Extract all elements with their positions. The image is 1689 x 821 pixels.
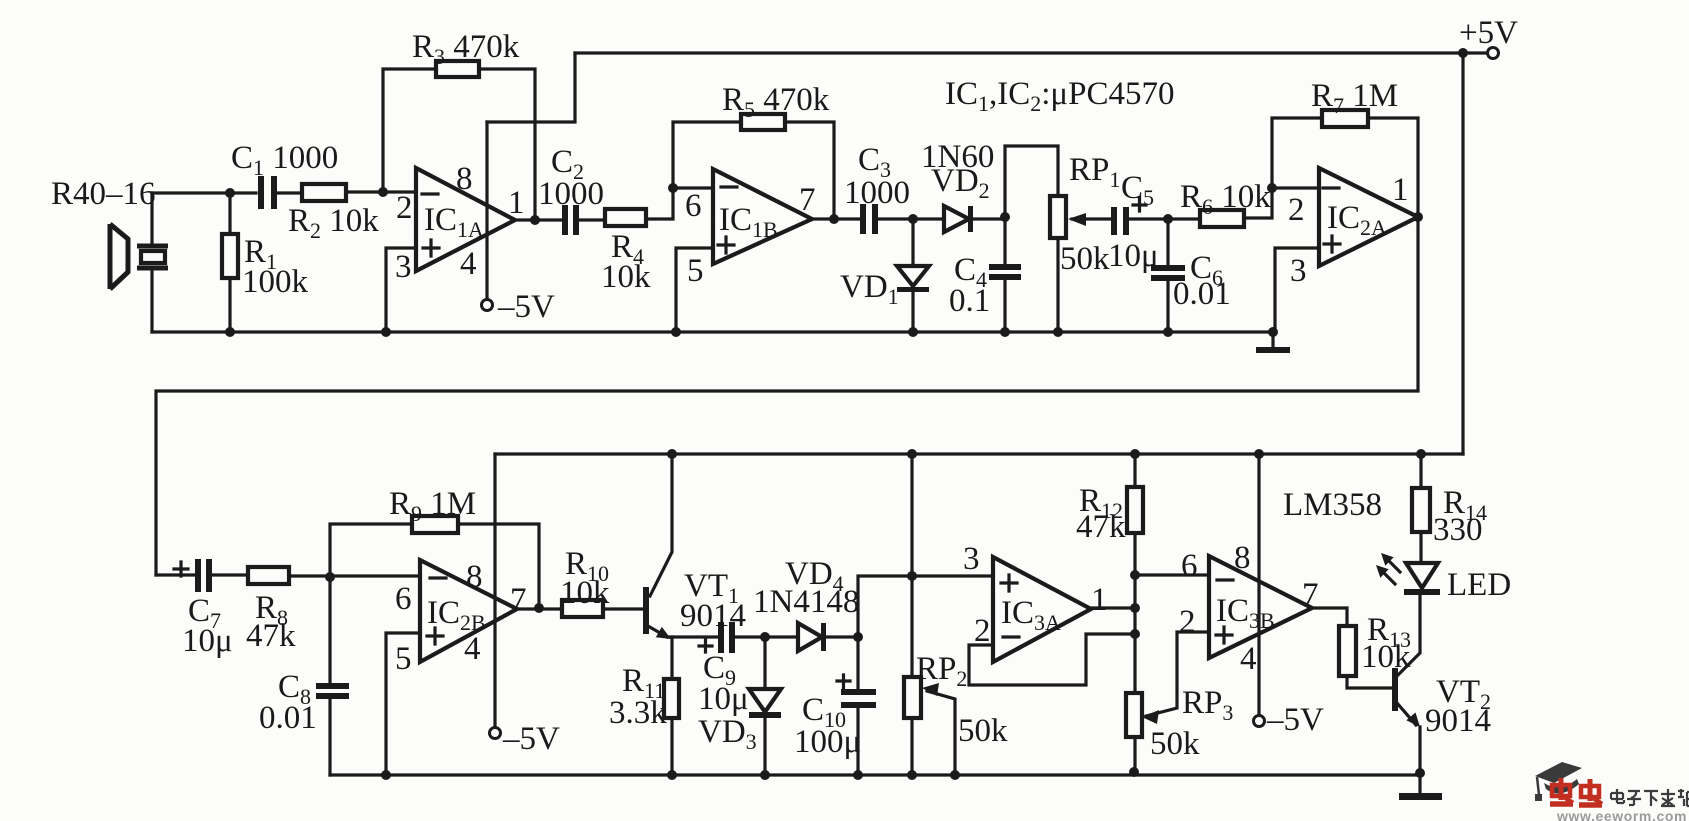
- wire RP3 wiper to IC3B pin2: [1146, 632, 1209, 716]
- capacitor C2: [562, 205, 568, 235]
- svg-text:R3 470k: R3 470k: [412, 29, 520, 69]
- node junction IC2A output R7: [1413, 212, 1423, 222]
- svg-text:0.01: 0.01: [1173, 276, 1231, 312]
- node junction IC1B output R5: [829, 214, 839, 224]
- node lower +V rail: [495, 452, 1463, 455]
- microphone R40-16 crystal element: [137, 246, 168, 268]
- wire C8 branch: [328, 577, 331, 775]
- wire C7 row to IC2B pin6: [156, 575, 420, 576]
- svg-text:www.eeworm.com: www.eeworm.com: [1556, 808, 1687, 821]
- wire R3 feedback loop: [383, 69, 535, 220]
- node junction IC1A output R3: [530, 215, 540, 225]
- wire RP2 vertical from rail: [910, 454, 913, 775]
- wire R1 branch: [228, 193, 231, 332]
- node junction RP2 IC3A pin3: [907, 571, 917, 581]
- node junction rail IC1B pin5: [671, 327, 681, 337]
- op-amp IC1A: [416, 168, 515, 271]
- node junction lower rail IC2B pin5: [381, 770, 391, 780]
- capacitor C10: [841, 689, 876, 695]
- wire IC3B output to R13: [1312, 608, 1347, 626]
- wire input row R40-16 to IC1A pin2: [152, 192, 416, 193]
- ground upper: [1271, 332, 1274, 347]
- wire R12 RP3 vertical: [1133, 454, 1136, 772]
- node -5V terminal IC2B: [490, 728, 501, 739]
- svg-text:50k: 50k: [1060, 241, 1110, 277]
- node junction rail VD1: [908, 327, 918, 337]
- svg-text:RP2: RP2: [916, 651, 967, 691]
- node junction rail RP1: [1053, 327, 1063, 337]
- wire C10 node up to IC3A pin3: [858, 576, 993, 637]
- wire C6 branch: [1166, 219, 1169, 332]
- svg-text:–5V: –5V: [497, 289, 555, 325]
- wire lower ground rail: [330, 773, 1420, 776]
- potentiometer RP2: [904, 677, 921, 718]
- op-amp IC2A: [1319, 168, 1418, 266]
- wire R5 feedback loop: [673, 122, 834, 219]
- svg-text:9014: 9014: [1425, 703, 1491, 739]
- resistor R6: [1200, 210, 1244, 227]
- diode VD1: [897, 266, 929, 286]
- microphone R40-16 horn: [110, 224, 128, 289]
- svg-text:10μ: 10μ: [698, 681, 749, 717]
- svg-text:VD1: VD1: [840, 269, 899, 309]
- wire VT2 collector to LED: [1397, 595, 1420, 676]
- svg-text:3: 3: [1290, 253, 1307, 289]
- capacitor C7: [195, 559, 201, 592]
- svg-text:IC1,IC2:μPC4570: IC1,IC2:μPC4570: [945, 76, 1174, 116]
- node junction lower rail RP3: [1129, 767, 1139, 777]
- wire IC1B pin5 to rail: [676, 248, 713, 332]
- op-amp IC3B: [1209, 556, 1312, 658]
- wire mic left branch: [150, 193, 153, 332]
- svg-text:4: 4: [1240, 641, 1257, 677]
- resistor R4: [605, 209, 646, 226]
- svg-text:7: 7: [799, 182, 816, 218]
- svg-text:–5V: –5V: [502, 721, 560, 757]
- svg-text:6: 6: [685, 188, 702, 224]
- wire IC2B supply line pin8-pin4: [493, 454, 496, 728]
- svg-text:8: 8: [466, 559, 483, 595]
- node junction IC2A pin2 R7: [1267, 183, 1277, 193]
- node junction C5 C6 R6: [1163, 214, 1173, 224]
- resistor R7: [1322, 110, 1368, 127]
- svg-text:2: 2: [974, 613, 991, 649]
- wire IC2A output long connector down-left to C7: [156, 217, 1418, 575]
- capacitor C8: [316, 683, 349, 689]
- svg-text:100μ: 100μ: [794, 724, 861, 760]
- wire +5V drop to IC1A pin8: [487, 53, 575, 122]
- wire VD1 branch: [911, 219, 914, 332]
- svg-text:4: 4: [464, 631, 481, 667]
- svg-text:VD3: VD3: [698, 714, 757, 754]
- node junction lower rail C10: [853, 770, 863, 780]
- svg-text:3: 3: [395, 249, 412, 285]
- node junction lower rail VT2 emitter: [1415, 768, 1425, 778]
- svg-text:2: 2: [1179, 604, 1196, 640]
- capacitor C6: [1151, 265, 1185, 271]
- resistor R2: [302, 184, 346, 201]
- watermark text dianzi xiazaizhan: [1611, 789, 1689, 806]
- node junction C1-R1 input: [225, 188, 235, 198]
- svg-text:8: 8: [456, 161, 473, 197]
- node junction VD1 VD2 anode: [908, 214, 918, 224]
- svg-text:IC2B: IC2B: [427, 595, 486, 635]
- svg-text:1: 1: [1091, 582, 1108, 618]
- wire R9 feedback loop: [330, 524, 539, 608]
- svg-text:5: 5: [687, 253, 704, 289]
- svg-text:+5V: +5V: [1459, 15, 1518, 51]
- transistor VT2: [1392, 668, 1398, 711]
- wire C10 branch: [856, 637, 859, 775]
- svg-text:R2 10k: R2 10k: [288, 203, 379, 243]
- svg-text:2: 2: [1288, 192, 1305, 228]
- node junction +5V rail drop: [1458, 48, 1468, 58]
- svg-text:IC1B: IC1B: [719, 202, 778, 242]
- wire R11 branch: [670, 637, 673, 775]
- node junction lower rail RP2 wiper: [950, 770, 960, 780]
- node junction VD4 C10 IC3A pin3: [853, 632, 863, 642]
- svg-text:6: 6: [1181, 548, 1198, 584]
- node junction rail RP2: [907, 449, 917, 459]
- wire VD4 cathode to C10 node: [826, 635, 858, 638]
- node junction R8 R9 C8 IC2B pin6: [325, 572, 335, 582]
- wire IC2B pin5 to rail: [386, 633, 420, 775]
- svg-text:50k: 50k: [958, 713, 1008, 749]
- svg-text:3: 3: [963, 541, 980, 577]
- wire node to RP1 top: [1005, 146, 1058, 217]
- wire RP2 wiper to rail: [927, 691, 955, 775]
- svg-text:9014: 9014: [680, 598, 746, 634]
- node junction lower rail VD3: [760, 770, 770, 780]
- svg-text:LM358: LM358: [1283, 487, 1382, 523]
- resistor R1: [222, 234, 238, 278]
- svg-text:IC2A: IC2A: [1327, 200, 1387, 240]
- svg-text:1: 1: [1392, 172, 1409, 208]
- svg-text:10k: 10k: [560, 575, 610, 611]
- diode VD3: [749, 689, 781, 712]
- resistor R5: [741, 114, 785, 130]
- resistor R10: [562, 600, 603, 617]
- potentiometer RP1: [1050, 196, 1066, 238]
- svg-text:C1 1000: C1 1000: [231, 140, 338, 180]
- svg-text:IC3B: IC3B: [1216, 593, 1275, 633]
- svg-text:IC1A: IC1A: [424, 202, 484, 242]
- node junction lower rail R11: [667, 770, 677, 780]
- svg-text:R5 470k: R5 470k: [722, 82, 830, 122]
- svg-text:0.1: 0.1: [949, 283, 990, 319]
- resistor R9: [412, 516, 458, 533]
- wire R14 branch: [1419, 454, 1422, 563]
- node junction VD2 cathode C4 RP1: [1000, 212, 1010, 222]
- node -5V terminal IC1A: [482, 300, 493, 311]
- wire VT1 collector to rail: [650, 454, 672, 596]
- svg-text:7: 7: [510, 582, 527, 618]
- capacitor C9: [718, 622, 724, 653]
- wire C4 branch: [1003, 217, 1006, 332]
- node junction rail IC3B pin8: [1254, 449, 1264, 459]
- wire VD3 branch: [763, 637, 766, 775]
- capacitor C5: [1111, 207, 1117, 235]
- diode VD2: [944, 206, 969, 232]
- resistor R3: [436, 61, 479, 77]
- svg-text:R6 10k: R6 10k: [1180, 179, 1271, 219]
- node +5V rail: [575, 51, 1490, 54]
- wire IC1A supply line pin8-pin4: [485, 122, 488, 300]
- transistor VT1: [643, 587, 649, 634]
- node junction C9 VD3 VD4: [760, 632, 770, 642]
- svg-text:1000: 1000: [538, 176, 604, 212]
- node junction rail IC1A pin3: [381, 327, 391, 337]
- watermark logo graduation cap: [1535, 762, 1582, 783]
- node junction R12 IC3B pin6: [1130, 570, 1140, 580]
- svg-text:47k: 47k: [1076, 509, 1126, 545]
- svg-text:–5V: –5V: [1266, 702, 1324, 738]
- resistor R13: [1339, 626, 1356, 676]
- node junction IC3A feedback: [1130, 629, 1140, 639]
- wire IC1A output to C2: [515, 218, 605, 221]
- node junction rail ground point: [1268, 327, 1278, 337]
- svg-text:50k: 50k: [1150, 726, 1200, 762]
- wire R10 to VT1 base: [603, 607, 644, 610]
- resistor R11: [664, 679, 679, 718]
- capacitor C1: [258, 176, 264, 209]
- node junction rail C4: [1000, 327, 1010, 337]
- svg-text:2: 2: [396, 190, 413, 226]
- wire IC2B output to R10: [517, 607, 562, 610]
- capacitor C4: [989, 264, 1021, 270]
- node junction rail R12: [1130, 449, 1140, 459]
- svg-text:1: 1: [508, 185, 525, 221]
- node +5V terminal: [1488, 48, 1499, 59]
- svg-text:330: 330: [1433, 512, 1483, 548]
- svg-text:C5: C5: [1121, 170, 1154, 210]
- wire IC2A pin3 to ground: [1275, 248, 1319, 332]
- op-amp IC2B: [420, 560, 517, 662]
- svg-text:10μ: 10μ: [1108, 238, 1159, 274]
- wire VD2 cathode to node: [972, 217, 1005, 220]
- LED: [1406, 563, 1438, 588]
- capacitor C3: [860, 204, 866, 234]
- resistor R8: [248, 567, 289, 584]
- wire VT1 emitter node to C9: [668, 635, 719, 638]
- diode VD4: [798, 623, 822, 651]
- node junction rail C6: [1163, 327, 1173, 337]
- svg-text:R40–16: R40–16: [51, 176, 156, 212]
- node junction IC1A pin2 R3: [378, 187, 388, 197]
- node junction IC1B pin6 R5: [668, 183, 678, 193]
- node junction IC2B output R9: [534, 603, 544, 613]
- op-amp IC3A: [993, 557, 1091, 662]
- svg-text:0.01: 0.01: [259, 700, 317, 736]
- wire R4 to IC1B pin6: [646, 188, 713, 219]
- node junction rail R1: [225, 327, 235, 337]
- wire R6 to IC2A pin2: [1244, 188, 1319, 218]
- svg-text:7: 7: [1302, 577, 1319, 613]
- svg-text:LED: LED: [1447, 567, 1511, 603]
- wire RP1 bottom to rail: [1056, 238, 1059, 332]
- watermark logo insect char 2: [1579, 779, 1602, 805]
- resistor R12: [1127, 487, 1143, 533]
- wire C5 to R6: [1129, 217, 1200, 220]
- watermark logo insect char 1: [1550, 778, 1573, 804]
- wire upper ground rail: [152, 330, 1273, 333]
- svg-text:R7 1M: R7 1M: [1311, 78, 1398, 118]
- svg-text:100k: 100k: [242, 264, 309, 300]
- svg-text:1000: 1000: [844, 175, 910, 211]
- node junction rail VT1 collector: [667, 449, 677, 459]
- wire IC1B output to C3: [812, 217, 944, 220]
- ground lower right: [1418, 773, 1421, 793]
- svg-text:47k: 47k: [246, 618, 296, 654]
- wire IC3A output: [1091, 606, 1134, 609]
- svg-text:4: 4: [460, 246, 477, 282]
- wire C9 to VD4: [734, 635, 798, 638]
- svg-text:3.3k: 3.3k: [609, 695, 667, 731]
- wire IC3A pin2 feedback loop: [969, 634, 1134, 685]
- wire RP1 wiper to C5: [1072, 217, 1112, 220]
- svg-text:RP3: RP3: [1182, 685, 1233, 725]
- svg-text:RP1: RP1: [1069, 152, 1120, 192]
- op-amp IC1B: [713, 169, 812, 264]
- resistor R14: [1412, 488, 1430, 532]
- svg-text:5: 5: [395, 641, 412, 677]
- svg-text:1N4148: 1N4148: [753, 584, 859, 620]
- wire R13 to VT2 base: [1347, 676, 1394, 688]
- node junction lower rail RP2: [907, 770, 917, 780]
- wire IC3B pin6 stub: [1134, 573, 1209, 576]
- svg-text:IC3A: IC3A: [1001, 595, 1061, 635]
- node junction IC3A output: [1130, 603, 1140, 613]
- potentiometer RP3: [1126, 693, 1142, 737]
- svg-text:R9 1M: R9 1M: [389, 486, 476, 526]
- svg-text:10k: 10k: [1361, 639, 1411, 675]
- wire IC3B supply line pin8-pin4: [1257, 454, 1260, 716]
- svg-text:6: 6: [395, 581, 412, 617]
- wire R7 feedback loop: [1272, 118, 1418, 217]
- svg-text:10k: 10k: [601, 259, 651, 295]
- wire IC1A pin3 to rail: [386, 248, 416, 332]
- svg-text:8: 8: [1234, 540, 1251, 576]
- wire VT2 emitter to rail: [1418, 727, 1421, 773]
- node junction rail R14: [1416, 449, 1426, 459]
- wire +5V drop right side: [1461, 53, 1464, 454]
- node -5V terminal IC3B: [1254, 716, 1265, 727]
- svg-text:10μ: 10μ: [182, 623, 233, 659]
